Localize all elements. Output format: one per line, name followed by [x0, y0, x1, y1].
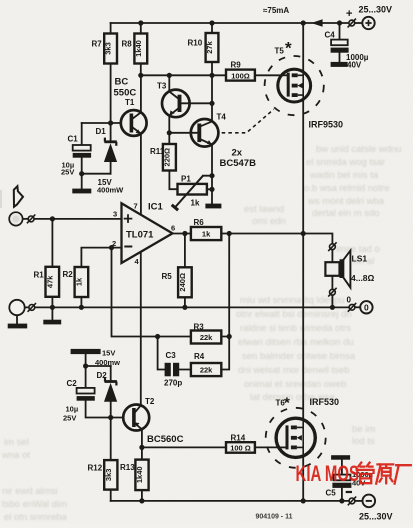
svg-text:nir ewd almsi: nir ewd almsi	[2, 486, 57, 497]
svg-text:im sel: im sel	[4, 437, 29, 448]
svg-text:sen balmder ontwse bimsa: sen balmder ontwse bimsa	[242, 351, 356, 362]
svg-text:be im: be im	[352, 424, 375, 435]
svg-text:wadin bel mis ta: wadin bel mis ta	[309, 170, 379, 181]
svg-text:25V: 25V	[61, 168, 74, 177]
svg-text:el otn snmreba: el otn snmreba	[4, 512, 68, 523]
svg-text:C4: C4	[325, 31, 336, 40]
svg-text:ws mont delri wba: ws mont delri wba	[307, 196, 385, 207]
svg-text:400mW: 400mW	[97, 186, 124, 195]
svg-text:*: *	[284, 395, 290, 412]
svg-text:15V: 15V	[102, 349, 115, 358]
svg-text:R3: R3	[194, 323, 205, 332]
svg-text:7: 7	[134, 202, 138, 211]
svg-text:550C: 550C	[114, 88, 137, 99]
svg-text:1k40: 1k40	[135, 466, 144, 483]
svg-text:BC: BC	[115, 77, 129, 88]
svg-text:40V: 40V	[347, 61, 362, 70]
svg-text:1k40: 1k40	[134, 40, 143, 57]
svg-text:T1: T1	[125, 98, 135, 107]
svg-text:25...30V: 25...30V	[359, 5, 393, 15]
svg-text:R14: R14	[231, 434, 246, 443]
svg-text:R2: R2	[63, 270, 74, 279]
svg-text:22k: 22k	[200, 333, 213, 342]
svg-text:6: 6	[171, 224, 175, 233]
svg-text:904109 - 11: 904109 - 11	[256, 514, 293, 521]
svg-text:220Ω: 220Ω	[162, 148, 171, 167]
svg-text:47k: 47k	[45, 275, 54, 288]
svg-text:4...8Ω: 4...8Ω	[351, 273, 375, 283]
svg-text:lod ts: lod ts	[352, 436, 375, 447]
svg-text:27k: 27k	[205, 40, 214, 53]
svg-text:≈75mA: ≈75mA	[263, 6, 289, 15]
svg-text:raldne si tenb wimeda otrs: raldne si tenb wimeda otrs	[240, 323, 351, 334]
svg-text:22k: 22k	[200, 366, 213, 375]
svg-text:C5: C5	[326, 489, 337, 498]
svg-text:tsbo enWal dim: tsbo enWal dim	[2, 499, 67, 510]
svg-text:T5: T5	[275, 47, 285, 56]
svg-text:D1: D1	[96, 127, 107, 136]
svg-text:0: 0	[364, 302, 369, 312]
svg-text:C1: C1	[68, 135, 79, 144]
svg-text:C2: C2	[67, 379, 78, 388]
svg-text:R12: R12	[88, 464, 103, 473]
svg-text:400mw: 400mw	[95, 358, 120, 367]
svg-text:1k: 1k	[202, 230, 211, 239]
svg-text:100 Ω: 100 Ω	[230, 443, 251, 452]
svg-text:0: 0	[347, 296, 352, 305]
svg-text:R13: R13	[120, 463, 135, 472]
svg-text:R9: R9	[231, 61, 242, 70]
svg-text:est lawnd: est lawnd	[244, 204, 284, 215]
svg-text:T4: T4	[217, 113, 227, 122]
svg-text:el snmida wog tsar: el snmida wog tsar	[306, 157, 385, 168]
svg-text:omi edn: omi edn	[252, 216, 286, 227]
svg-text:2: 2	[112, 239, 116, 248]
svg-text:BC547B: BC547B	[220, 158, 257, 169]
svg-text:onimal et srewdan oweb: onimal et srewdan oweb	[244, 379, 346, 390]
svg-text:LS1: LS1	[352, 254, 368, 264]
svg-text:KIA MOS: KIA MOS	[296, 461, 360, 486]
svg-text:IC1: IC1	[148, 202, 164, 213]
svg-text:BC560C: BC560C	[147, 434, 184, 445]
svg-text:3: 3	[113, 210, 117, 219]
svg-text:*: *	[285, 39, 292, 58]
svg-text:P1: P1	[181, 175, 191, 184]
svg-text:R10: R10	[188, 39, 203, 48]
svg-text:240Ω: 240Ω	[178, 273, 187, 292]
svg-text:25...30V: 25...30V	[359, 512, 393, 522]
svg-text:3k3: 3k3	[104, 42, 113, 55]
svg-text:wna ot: wna ot	[1, 450, 30, 461]
svg-text:TL071: TL071	[126, 230, 154, 241]
svg-text:T2: T2	[145, 397, 155, 406]
svg-text:otnr elwatt bsi deminsrej dh: otnr elwatt bsi deminsrej dh	[236, 309, 352, 320]
svg-text:2x: 2x	[232, 148, 243, 159]
svg-text:R1: R1	[34, 271, 45, 280]
svg-text:R6: R6	[194, 218, 205, 227]
svg-text:25V: 25V	[63, 414, 76, 423]
svg-text:R8: R8	[122, 40, 133, 49]
svg-text:1k: 1k	[74, 277, 83, 286]
svg-text:10µ: 10µ	[66, 405, 79, 414]
svg-text:dertal ein m sdo: dertal ein m sdo	[312, 208, 380, 219]
svg-text:R5: R5	[162, 272, 173, 281]
svg-text:dni welsat mor denwil tseb: dni welsat mor denwil tseb	[238, 365, 349, 376]
svg-text:C3: C3	[166, 351, 177, 360]
svg-text:IRF530: IRF530	[310, 397, 340, 407]
svg-text:IRF9530: IRF9530	[309, 120, 344, 130]
svg-text:o.b wsa relmid notre: o.b wsa relmid notre	[304, 183, 390, 194]
svg-text:elwan ditsen rba melkon du: elwan ditsen rba melkon du	[238, 337, 354, 348]
svg-text:bw unid catsle wdnu: bw unid catsle wdnu	[316, 144, 402, 155]
svg-text:3k3: 3k3	[104, 469, 113, 482]
svg-text:270p: 270p	[164, 379, 182, 388]
svg-text:+: +	[346, 8, 352, 20]
svg-text:1k: 1k	[191, 199, 200, 208]
svg-text:100Ω: 100Ω	[231, 71, 250, 80]
svg-text:R4: R4	[194, 352, 205, 361]
svg-text:T3: T3	[157, 82, 167, 91]
svg-text:R7: R7	[92, 40, 103, 49]
svg-text:D2: D2	[97, 371, 108, 380]
